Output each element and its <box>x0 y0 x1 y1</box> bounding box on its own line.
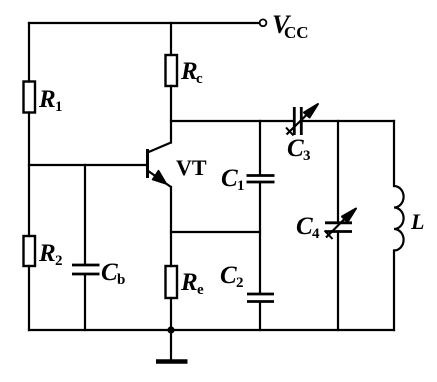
svg-text:1: 1 <box>55 99 63 115</box>
svg-text:R: R <box>180 269 198 296</box>
svg-text:C: C <box>101 259 118 286</box>
svg-text:R: R <box>38 240 56 267</box>
svg-text:4: 4 <box>312 226 320 242</box>
svg-text:b: b <box>117 272 125 288</box>
svg-text:c: c <box>196 71 203 87</box>
svg-text:R: R <box>38 86 56 113</box>
svg-text:3: 3 <box>303 148 311 164</box>
svg-text:2: 2 <box>236 275 244 291</box>
svg-text:1: 1 <box>237 178 245 194</box>
svg-text:VT: VT <box>176 155 207 180</box>
svg-text:L: L <box>410 209 424 234</box>
svg-text:e: e <box>197 282 204 298</box>
svg-text:2: 2 <box>55 253 63 269</box>
svg-text:C: C <box>221 165 238 192</box>
svg-text:CC: CC <box>284 23 309 42</box>
svg-text:C: C <box>296 213 313 240</box>
svg-text:C: C <box>287 135 304 162</box>
svg-text:C: C <box>220 262 237 289</box>
